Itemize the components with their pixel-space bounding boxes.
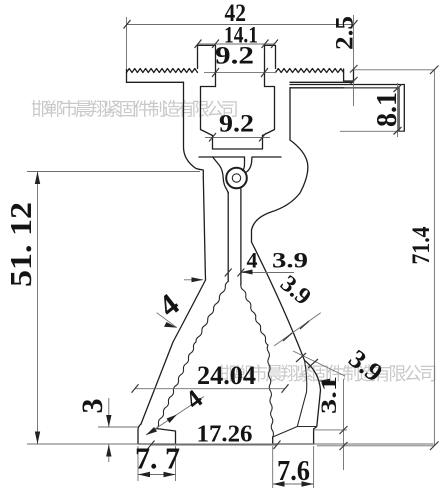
svg-text:9.2: 9.2 (215, 43, 254, 70)
plate bottom right (290, 81, 347, 83)
dim 9.2 top ticks (212, 68, 268, 77)
dim 14.1 ticks (195, 40, 279, 49)
dim 4 slit arrows (184, 273, 294, 280)
plate right notch (344, 69, 354, 81)
plate right edge lower (347, 81, 354, 82)
serrated top surface left segment (127, 69, 198, 73)
leader arrow small (319, 380, 334, 382)
dim 7.7 line (138, 446, 176, 481)
dim 9.2 bottom line (205, 137, 270, 139)
PROFILE OBJECT LINES (127, 45, 405, 444)
plate left edge (126, 69, 128, 82)
dim 7.6 line (273, 446, 314, 488)
dim 3.1 line (314, 379, 347, 470)
dim 42 ticks (124, 20, 358, 29)
right arm end lip (399, 85, 404, 132)
left shoulder step (199, 169, 203, 177)
right claw outer (273, 360, 321, 444)
right claw inner (297, 360, 317, 426)
ball hole (232, 174, 240, 182)
ball outer (226, 168, 247, 189)
svg-text:7. 7: 7. 7 (135, 441, 180, 476)
dim 3 arrows (106, 415, 111, 457)
block bottom face left (199, 156, 245, 158)
svg-text:3.1: 3.1 (316, 376, 341, 414)
svg-text:3.9: 3.9 (272, 248, 308, 273)
dim 42 line (127, 15, 354, 106)
svg-text:8.1: 8.1 (372, 92, 403, 127)
dim 9.2 top line (204, 72, 276, 74)
svg-text:51. 12: 51. 12 (3, 202, 38, 287)
channel cavity roof left (201, 87, 216, 136)
dim 51.12 arrows (35, 172, 40, 445)
svg-text:4: 4 (152, 286, 186, 323)
block bottom face right (252, 156, 281, 158)
dim 8.1 line (340, 83, 404, 137)
svg-text:4: 4 (247, 248, 258, 273)
ball stem (243, 157, 253, 172)
svg-text:71.4: 71.4 (408, 226, 435, 264)
svg-text:24.04: 24.04 (197, 361, 256, 390)
left foot (138, 424, 176, 444)
dim 4 lower-left leader (146, 397, 204, 436)
svg-text:邯郸市晨翔紧固件制造有限公司: 邯郸市晨翔紧固件制造有限公司 (31, 100, 237, 120)
socket inner surface (213, 157, 229, 193)
dim 51.12 line (27, 172, 434, 445)
dim 71.4 ticks (430, 66, 439, 451)
dim 3.9 mid diagonal (274, 313, 320, 346)
dim 4 upper-left leader (157, 313, 177, 328)
dim 2.5 ticks (350, 65, 358, 85)
left cavity serrated edge (156, 282, 228, 430)
channel bottom recess (213, 136, 263, 150)
left leg outer edge (141, 280, 206, 424)
right arm top (290, 84, 404, 86)
dim 17.26 line (151, 444, 277, 446)
svg-text:3: 3 (76, 399, 109, 414)
right wedge flare (252, 242, 305, 360)
svg-text:9.2: 9.2 (219, 111, 254, 138)
right arm bottom (290, 87, 399, 89)
dim 14.1 line (198, 43, 275, 45)
serrated top surface right segment (276, 69, 344, 73)
boss outer left wall (198, 45, 216, 86)
right cavity serrated edge upper (241, 285, 268, 345)
svg-text:17.26: 17.26 (197, 422, 253, 448)
svg-text:7.6: 7.6 (277, 456, 310, 487)
block right wall (289, 88, 291, 140)
svg-text:2.5: 2.5 (332, 16, 359, 50)
boss outer right wall (265, 45, 276, 86)
dim 3 line (98, 398, 138, 462)
block left wall (184, 82, 200, 169)
neck left wall (203, 177, 205, 280)
channel cavity roof right (263, 87, 275, 136)
dim 24.04 line (135, 388, 285, 390)
right hook bulge (252, 140, 308, 242)
slit left wall (227, 192, 229, 282)
dim 71.4 line (317, 70, 434, 446)
plate bottom left (127, 81, 184, 83)
right cavity serrated edge lower (267, 345, 273, 437)
dim 3.9 right diagonal (293, 351, 345, 376)
slit right wall (240, 189, 242, 285)
dim 8.1 ticks (394, 85, 402, 135)
dim 9.2 bottom ticks (209, 133, 266, 142)
right foot top left (273, 427, 298, 438)
